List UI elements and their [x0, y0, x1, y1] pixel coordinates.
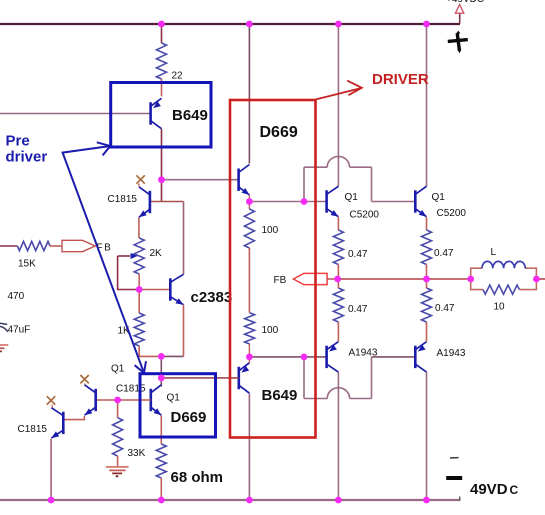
junction rail/R22 [158, 21, 165, 28]
wire bypass top left seg [304, 166, 327, 168]
transistor c2383 (NPN) [169, 278, 172, 300]
resistor 0.47 q12 [422, 230, 432, 265]
inductor L [482, 261, 525, 268]
svg-text:c2383: c2383 [191, 289, 233, 306]
svg-text:0.47: 0.47 [348, 249, 368, 260]
wire q2 emitter to q3 base [63, 416, 84, 420]
wire L network frame [471, 268, 482, 279]
wire bypass top riser left [303, 167, 305, 201]
wire D669 emitter to 68ohm [160, 416, 162, 445]
X marker C1815 bias collector [136, 175, 144, 183]
wire q3 collector stub [51, 405, 53, 408]
wire output node to R q22 [426, 279, 428, 288]
resistor 68 ohm [156, 444, 166, 478]
svg-text:68 ohm: 68 ohm [171, 469, 224, 486]
junction rail A1943-1 [335, 497, 342, 504]
svg-text:2K: 2K [150, 248, 163, 259]
svg-text:Q1: Q1 [345, 192, 359, 203]
net flag FB input [62, 240, 95, 251]
junction base row top [301, 198, 308, 205]
wire R22 to B649 emitter [161, 79, 163, 96]
capacitor 47uF stub [0, 323, 7, 324]
junction D669 emitter node [246, 198, 253, 205]
wire bypass to A1943-2 base [372, 356, 416, 358]
wire bypass bottom left seg [304, 398, 327, 400]
svg-text:D669: D669 [171, 409, 207, 426]
wire output node to R q21 [337, 279, 339, 288]
svg-text:FB: FB [274, 275, 287, 286]
svg-text:Q1: Q1 [432, 192, 446, 203]
wire 2K to node [138, 274, 140, 290]
wire A1943-2 emitter lead [426, 322, 428, 342]
svg-text:driver: driver [6, 149, 48, 166]
junction output node 1 [334, 276, 341, 283]
wire to output node 2 [426, 265, 428, 280]
wire B649 collector to rail [248, 394, 250, 501]
transistor B649 driver (PNP) [238, 367, 241, 389]
wire FB flag to node [327, 278, 338, 280]
transistor B649 predriver (PNP) [149, 102, 152, 124]
junction rail/Q1-1 collector [335, 21, 342, 28]
wire output to right edge [536, 278, 545, 280]
annotation DRIVER arrow [316, 88, 361, 99]
battery symbol thick plate [446, 476, 462, 480]
svg-text:Q1: Q1 [167, 393, 181, 404]
svg-text:+49VDC: +49VDC [446, 0, 484, 5]
svg-text:C5200: C5200 [437, 208, 467, 219]
wire rail end tick [459, 497, 461, 501]
wire C1815 bias collector stub [138, 184, 140, 187]
svg-text:10: 10 [494, 302, 506, 313]
wire base row to Q1-1 [304, 201, 327, 203]
wire to R100a [248, 202, 250, 210]
wire q2 collector stub [84, 383, 86, 384]
pot wiper arrow [118, 255, 130, 257]
wire +V rail to supply symbol [459, 13, 461, 24]
wire B649 collector lead [161, 129, 163, 180]
junction rail/D669 collector [246, 21, 253, 28]
resistor 10 damping [483, 285, 519, 294]
junction rail q3 [48, 497, 55, 504]
wire Q1 C5200-1 collector to rail [337, 24, 339, 187]
resistor 1K [134, 313, 144, 346]
svg-text:47uF: 47uF [8, 325, 31, 336]
wire C1815 bias emitter lead [138, 218, 140, 239]
wire D669 base row [96, 399, 151, 401]
svg-text:D669: D669 [260, 124, 298, 141]
wire c2383 collector riser [183, 202, 185, 275]
wire A1943-1 emitter lead [337, 322, 339, 342]
power symbol +49V triangle [455, 5, 463, 14]
wire bypass hop over collector [327, 156, 349, 167]
wire 68ohm to rail [160, 478, 162, 500]
svg-text:Q1: Q1 [111, 364, 125, 375]
junction rail B649 [246, 497, 253, 504]
junction L network left [467, 276, 474, 283]
X marker q2 collector [80, 375, 88, 383]
junction output node 2 [423, 276, 430, 283]
wire C1815 bias base row [150, 201, 184, 203]
X marker q3 collector [47, 396, 55, 404]
svg-text:470: 470 [8, 291, 25, 302]
transistor A1943 first (PNP) [325, 346, 328, 368]
resistor 100 lower [245, 313, 255, 344]
junction node c2383 emitter [158, 353, 165, 360]
resistor 0.47 q21 [333, 288, 343, 322]
resistor R 22 [157, 43, 167, 79]
wire A1943-2 collector to rail [426, 372, 428, 500]
junction L network right [533, 276, 540, 283]
net flag FB output [293, 273, 327, 284]
transistor D669 pre-driver (NPN) [150, 389, 153, 411]
svg-text:A1943: A1943 [437, 348, 466, 359]
wire c2383 emitter lead [183, 305, 185, 357]
wire bypass to Q1-2 base [372, 201, 416, 203]
ground symbol left edge [0, 344, 8, 346]
svg-text:49VD: 49VD [470, 481, 508, 498]
svg-text:Pre: Pre [6, 133, 30, 150]
wire node to 1K [138, 290, 140, 314]
svg-text:22: 22 [172, 71, 184, 82]
wire bypass top riser right [371, 167, 373, 201]
transistor Q1 C5200 first (NPN) [325, 190, 328, 212]
svg-text:A1943: A1943 [349, 348, 378, 359]
wire 33K top lead [117, 400, 119, 418]
wire node down to C1815 bias base [161, 180, 163, 202]
annotation black cross marker [448, 31, 468, 54]
wire R22 top lead [161, 24, 163, 43]
resistor 100 upper [244, 209, 254, 248]
svg-text:L: L [491, 247, 497, 258]
wire predriver to D669 base [162, 179, 239, 181]
resistor 0.47 q22 [422, 288, 432, 322]
junction base row bottom [301, 354, 308, 361]
transistor C1815 bias (NPN left-facing) [149, 191, 152, 213]
wire bypass bottom right seg [350, 398, 372, 400]
svg-text:100: 100 [262, 325, 279, 336]
junction rail/Q1-2 collector [423, 21, 430, 28]
svg-text:C5200: C5200 [350, 210, 380, 221]
svg-text:C1815: C1815 [18, 424, 48, 435]
wire 33K to ground [117, 456, 119, 466]
wire node to c2383 base [139, 289, 170, 291]
wire to output node 1 [337, 265, 339, 280]
wire node to A1943 bases [249, 356, 304, 358]
wire B649 emitter stub [248, 357, 250, 363]
svg-text:C: C [510, 483, 519, 497]
wire Q1-2 emitter lead [426, 217, 428, 230]
box D669 pre-driver [140, 374, 216, 437]
wire B649 driver base [161, 377, 238, 379]
svg-text:0.47: 0.47 [348, 304, 368, 315]
transistor C1815 q3 (NPN left) [62, 412, 65, 434]
wire Q1-1 emitter lead [337, 217, 339, 230]
wire D669 emitter lead [248, 195, 250, 202]
svg-text:C1815: C1815 [108, 194, 138, 205]
wire Q1 C5200-2 collector to rail [426, 24, 428, 187]
wire bypass top right seg [350, 166, 372, 168]
svg-text:0.47: 0.47 [434, 248, 454, 259]
wire node down to D669 [160, 356, 162, 386]
svg-text:B649: B649 [172, 107, 208, 124]
box B649 predriver [111, 83, 211, 148]
battery symbol thin plate [450, 457, 459, 459]
wire emitter node to output bases [249, 201, 304, 203]
wire emitter row to node [161, 355, 183, 357]
ground symbol 33K [106, 466, 129, 468]
junction node 33K [114, 397, 121, 404]
resistor 0.47 q11 [333, 230, 343, 265]
wire bottom -V rail [0, 499, 460, 501]
resistor 2K preset [134, 238, 144, 274]
wire D669 driver collector to rail [248, 24, 250, 164]
svg-text:DRIVER: DRIVER [372, 71, 429, 88]
wire q3 emitter to rail [50, 439, 52, 500]
annotation arrow to boxes [63, 146, 144, 371]
wire wiper bypass [118, 256, 136, 290]
wire FB input row [0, 245, 17, 247]
wire base row to A1943-1 [304, 356, 327, 358]
junction rail 68ohm [158, 497, 165, 504]
wire between 100 resistors [248, 248, 250, 313]
wire top +V rail [0, 23, 460, 25]
wire 1K bottom corner [139, 346, 161, 356]
svg-text:33K: 33K [128, 448, 146, 459]
junction node at box edge [158, 375, 165, 382]
junction rail A1943-2 [423, 497, 430, 504]
resistor 15K [17, 241, 50, 250]
svg-text:0.47: 0.47 [435, 303, 455, 314]
wire A1943-1 collector to rail [337, 372, 339, 500]
junction node 2K/1K [136, 286, 143, 293]
wire R100b to node [248, 344, 250, 357]
wire output row [338, 278, 471, 280]
wire bypass bottom riser right [371, 357, 373, 399]
svg-text:100: 100 [262, 225, 279, 236]
transistor Q1 C5200 second (NPN) [414, 190, 417, 212]
transistor A1943 second (PNP) [414, 346, 417, 368]
wire 15K to FB flag [50, 245, 62, 247]
transistor D669 driver (NPN) [237, 169, 240, 191]
junction predriver out [158, 176, 165, 183]
wire bypass bottom riser left [303, 357, 305, 399]
svg-text:B649: B649 [262, 387, 298, 404]
wire B649 base from left [0, 113, 151, 115]
resistor 33K [113, 418, 123, 456]
svg-text:15K: 15K [18, 259, 36, 270]
junction B649 emitter node [246, 354, 253, 361]
wire bypass hop bottom [327, 388, 349, 399]
transistor C1815 q2 (NPN left) [94, 389, 97, 411]
box DRIVER stage (red) [230, 100, 316, 438]
